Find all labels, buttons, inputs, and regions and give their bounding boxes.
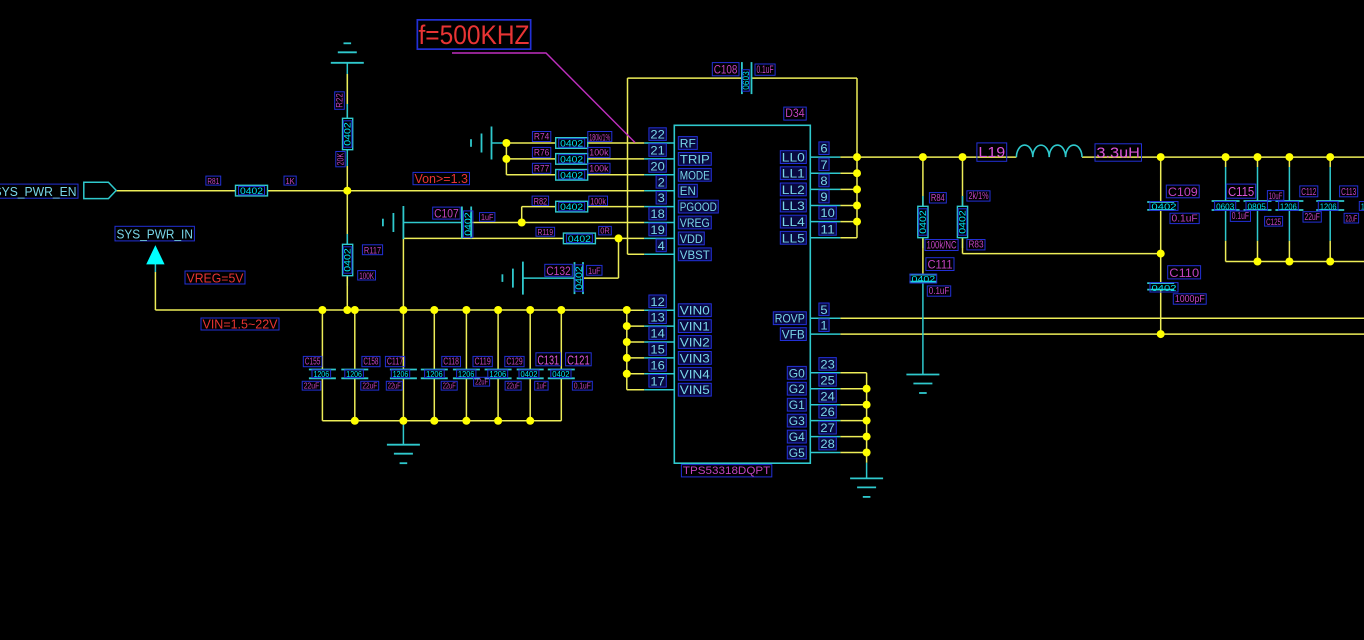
svg-text:22uF: 22uF <box>388 382 401 391</box>
svg-text:R119: R119 <box>538 227 554 237</box>
svg-text:0.1uF: 0.1uF <box>1232 211 1249 222</box>
svg-text:G0: G0 <box>789 366 805 380</box>
svg-text:0402: 0402 <box>918 210 928 233</box>
svg-text:LL3: LL3 <box>782 199 805 213</box>
svg-text:1206: 1206 <box>393 369 409 379</box>
svg-text:3: 3 <box>658 191 665 205</box>
svg-text:C131: C131 <box>537 352 559 367</box>
svg-text:VBST: VBST <box>680 248 711 262</box>
svg-text:20: 20 <box>650 159 665 173</box>
svg-text:R82: R82 <box>534 196 548 206</box>
svg-text:VIN2: VIN2 <box>680 336 710 350</box>
svg-text:22uF: 22uF <box>475 378 488 387</box>
svg-text:0402: 0402 <box>568 234 591 244</box>
svg-text:0R: 0R <box>600 227 610 236</box>
svg-text:VIN4: VIN4 <box>680 367 710 381</box>
svg-text:C158: C158 <box>363 357 378 368</box>
svg-text:1206: 1206 <box>426 369 443 379</box>
svg-text:VFB: VFB <box>782 328 805 342</box>
svg-text:RF: RF <box>680 137 696 151</box>
svg-text:1206: 1206 <box>314 369 330 379</box>
svg-text:18: 18 <box>650 207 665 221</box>
svg-text:VREG=5V: VREG=5V <box>187 271 244 286</box>
svg-text:C112: C112 <box>1301 186 1316 198</box>
svg-text:f=500KHZ: f=500KHZ <box>419 20 530 50</box>
svg-text:15: 15 <box>650 343 665 357</box>
svg-text:LL5: LL5 <box>782 231 805 245</box>
svg-text:C117: C117 <box>387 357 403 368</box>
svg-text:LL4: LL4 <box>782 215 805 229</box>
svg-text:22uF: 22uF <box>362 382 377 391</box>
svg-text:2: 2 <box>658 175 665 189</box>
svg-text:R74: R74 <box>534 132 549 143</box>
svg-text:100K: 100K <box>359 271 374 281</box>
svg-text:0603: 0603 <box>1216 201 1234 211</box>
svg-text:R84: R84 <box>931 193 945 204</box>
svg-text:1000pF: 1000pF <box>1175 294 1205 305</box>
svg-text:PGOOD: PGOOD <box>680 200 717 214</box>
svg-text:0402: 0402 <box>240 186 263 196</box>
svg-text:22: 22 <box>650 128 665 142</box>
svg-text:C107: C107 <box>434 207 459 221</box>
svg-text:0402: 0402 <box>560 154 583 164</box>
svg-text:C115: C115 <box>1228 184 1254 199</box>
svg-text:G4: G4 <box>789 430 805 444</box>
svg-text:G2: G2 <box>789 382 805 396</box>
svg-text:17: 17 <box>650 374 665 388</box>
svg-text:25: 25 <box>820 373 835 387</box>
svg-text:R77: R77 <box>534 163 549 174</box>
svg-text:0402: 0402 <box>560 202 583 212</box>
svg-text:0402: 0402 <box>343 248 353 271</box>
svg-text:11: 11 <box>820 222 835 236</box>
svg-text:C129: C129 <box>506 357 523 368</box>
svg-text:Von>=1.3: Von>=1.3 <box>414 172 468 186</box>
svg-text:100k: 100k <box>589 163 608 174</box>
svg-text:MODE: MODE <box>680 168 710 182</box>
svg-text:20K: 20K <box>336 153 346 165</box>
svg-text:0402: 0402 <box>1152 283 1177 293</box>
svg-text:1206: 1206 <box>1280 201 1297 211</box>
svg-text:100k: 100k <box>590 196 606 206</box>
svg-text:C155: C155 <box>305 357 321 368</box>
svg-text:22uF: 22uF <box>1346 214 1358 224</box>
svg-text:VDD: VDD <box>680 232 703 246</box>
svg-text:C119: C119 <box>474 357 491 368</box>
svg-text:ROVP: ROVP <box>775 312 805 326</box>
svg-text:0402: 0402 <box>574 266 584 289</box>
svg-text:C125: C125 <box>1266 217 1281 227</box>
svg-text:0402: 0402 <box>912 274 936 284</box>
svg-text:22uF: 22uF <box>304 382 320 391</box>
svg-text:R117: R117 <box>364 245 381 256</box>
svg-text:27: 27 <box>820 421 835 435</box>
svg-text:7: 7 <box>820 158 827 172</box>
svg-text:0402: 0402 <box>1151 201 1176 211</box>
svg-text:1K: 1K <box>286 176 296 186</box>
svg-text:14: 14 <box>650 327 665 341</box>
svg-text:L19: L19 <box>978 144 1005 161</box>
svg-text:22uF: 22uF <box>443 382 456 391</box>
svg-text:G5: G5 <box>789 446 805 460</box>
svg-text:0402: 0402 <box>552 369 569 379</box>
svg-text:0603: 0603 <box>741 71 751 90</box>
svg-text:12: 12 <box>650 295 665 309</box>
svg-text:13: 13 <box>650 311 665 325</box>
svg-text:C121: C121 <box>567 352 590 367</box>
svg-text:100k: 100k <box>589 147 608 158</box>
svg-text:VREG: VREG <box>680 216 710 230</box>
svg-text:TRIP: TRIP <box>680 152 710 166</box>
svg-text:C108: C108 <box>714 63 738 77</box>
svg-text:1uF: 1uF <box>588 266 601 276</box>
svg-text:0402: 0402 <box>560 170 583 180</box>
svg-text:0.1uF: 0.1uF <box>756 64 773 76</box>
svg-text:100k/NC: 100k/NC <box>926 240 956 252</box>
svg-text:0805: 0805 <box>1248 201 1267 211</box>
svg-text:22uF: 22uF <box>1305 212 1320 223</box>
svg-text:VIN3: VIN3 <box>680 351 710 365</box>
svg-text:R83: R83 <box>968 240 983 251</box>
svg-text:0.1uF: 0.1uF <box>929 286 949 297</box>
svg-text:16: 16 <box>650 358 665 372</box>
svg-text:C113: C113 <box>1341 186 1356 198</box>
svg-text:VIN=1.5~22V: VIN=1.5~22V <box>203 318 279 332</box>
svg-text:R22: R22 <box>335 93 345 108</box>
svg-text:LL2: LL2 <box>782 183 805 197</box>
svg-text:2k/1%: 2k/1% <box>968 191 988 202</box>
svg-text:C118: C118 <box>443 357 459 368</box>
svg-text:6: 6 <box>820 142 827 156</box>
svg-text:SYS_PWR_EN: SYS_PWR_EN <box>0 184 77 199</box>
svg-text:3.3uH: 3.3uH <box>1096 145 1140 162</box>
svg-text:19: 19 <box>650 223 665 237</box>
svg-text:R81: R81 <box>207 176 219 186</box>
svg-text:10: 10 <box>820 206 835 220</box>
svg-text:C111: C111 <box>927 258 952 272</box>
svg-text:180k/1%: 180k/1% <box>589 131 610 142</box>
svg-text:LL0: LL0 <box>782 151 805 165</box>
svg-text:SYS_PWR_IN: SYS_PWR_IN <box>117 227 193 242</box>
svg-text:C132: C132 <box>546 264 571 278</box>
svg-text:R76: R76 <box>534 147 549 158</box>
svg-text:22uF: 22uF <box>507 382 520 391</box>
svg-text:0402: 0402 <box>463 212 473 235</box>
svg-text:VIN5: VIN5 <box>680 383 710 397</box>
svg-text:LL1: LL1 <box>782 167 805 181</box>
svg-text:1206: 1206 <box>458 369 475 379</box>
svg-text:0402: 0402 <box>343 122 353 145</box>
svg-text:4: 4 <box>658 239 665 253</box>
svg-text:EN: EN <box>680 184 696 198</box>
svg-text:28: 28 <box>820 437 835 451</box>
svg-text:5: 5 <box>820 303 827 317</box>
svg-text:1uF: 1uF <box>536 382 546 391</box>
svg-text:1206: 1206 <box>1320 201 1337 211</box>
svg-text:10uF: 10uF <box>1269 191 1283 201</box>
svg-text:VIN1: VIN1 <box>680 320 710 334</box>
svg-text:C109: C109 <box>1168 185 1198 199</box>
svg-text:G1: G1 <box>789 398 805 412</box>
svg-text:26: 26 <box>820 405 835 419</box>
svg-text:C110: C110 <box>1169 266 1199 280</box>
svg-text:9: 9 <box>820 190 827 204</box>
svg-text:D34: D34 <box>785 108 805 120</box>
svg-text:24: 24 <box>820 389 835 403</box>
svg-text:0402: 0402 <box>958 210 968 233</box>
svg-text:1206: 1206 <box>489 369 506 379</box>
svg-text:23: 23 <box>820 357 835 371</box>
svg-text:1uF: 1uF <box>481 213 493 222</box>
svg-text:TPS53318DQPT: TPS53318DQPT <box>683 465 771 477</box>
svg-text:0.1uF: 0.1uF <box>574 382 591 391</box>
svg-text:8: 8 <box>820 174 827 188</box>
svg-text:VIN0: VIN0 <box>680 304 710 318</box>
svg-text:21: 21 <box>650 144 665 158</box>
svg-text:G3: G3 <box>789 414 805 428</box>
svg-text:0.1uF: 0.1uF <box>1172 213 1198 224</box>
svg-text:0402: 0402 <box>521 369 538 379</box>
svg-text:1206: 1206 <box>346 369 362 379</box>
svg-text:1: 1 <box>820 319 827 333</box>
svg-text:0402: 0402 <box>560 139 583 149</box>
